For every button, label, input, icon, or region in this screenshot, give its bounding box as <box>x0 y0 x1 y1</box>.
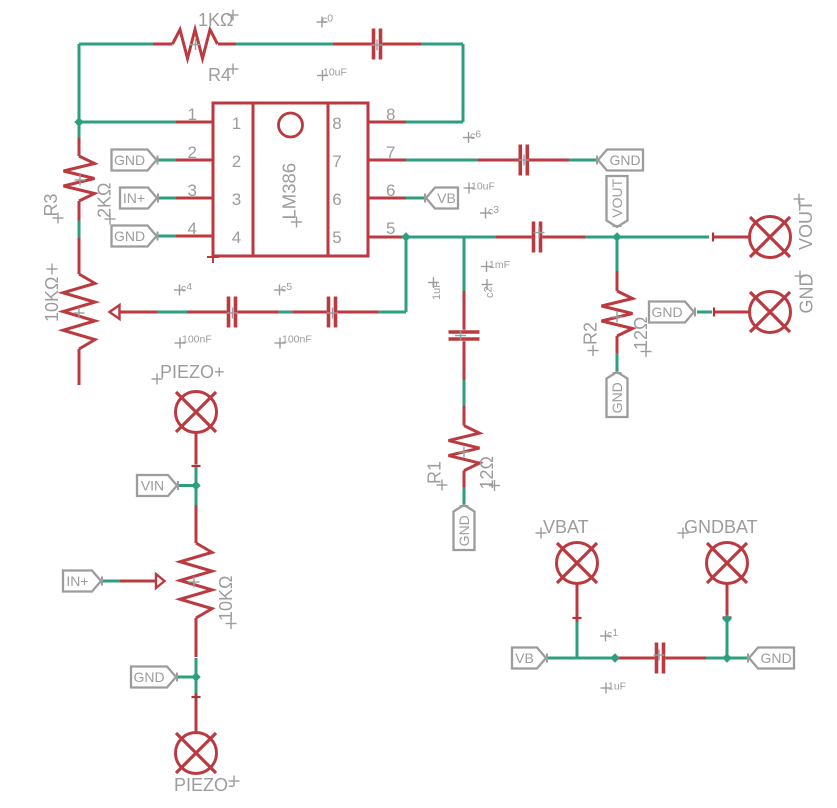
svg-text:GNDBAT: GNDBAT <box>684 517 758 537</box>
svg-text:GND: GND <box>609 152 640 168</box>
svg-text:c2: c2 <box>483 286 497 298</box>
svg-text:c1: c1 <box>607 627 618 641</box>
svg-text:LM386: LM386 <box>279 163 300 220</box>
svg-text:3: 3 <box>188 181 197 200</box>
svg-text:c3: c3 <box>488 204 499 218</box>
svg-text:GND: GND <box>456 515 472 546</box>
svg-text:R2: R2 <box>581 322 601 345</box>
svg-text:VB: VB <box>437 190 456 206</box>
svg-text:1uF: 1uF <box>608 681 626 693</box>
svg-text:PIEZO-: PIEZO- <box>174 775 234 795</box>
svg-text:c6: c6 <box>470 129 481 143</box>
svg-text:c5: c5 <box>281 281 292 295</box>
svg-text:3: 3 <box>232 190 241 209</box>
svg-text:c0: c0 <box>322 13 333 27</box>
svg-text:VOUT: VOUT <box>796 200 816 250</box>
svg-text:7: 7 <box>386 143 395 162</box>
svg-text:IN+: IN+ <box>123 190 145 206</box>
svg-text:1: 1 <box>232 114 241 133</box>
svg-text:8: 8 <box>386 105 395 124</box>
svg-text:GND: GND <box>760 650 791 666</box>
svg-text:7: 7 <box>332 152 341 171</box>
svg-text:GND: GND <box>114 152 145 168</box>
svg-text:R4: R4 <box>208 65 231 85</box>
svg-text:VOUT: VOUT <box>609 178 625 217</box>
svg-text:c4: c4 <box>181 281 192 295</box>
svg-text:10uF: 10uF <box>323 67 347 79</box>
svg-text:10KΩ: 10KΩ <box>42 277 62 322</box>
svg-text:4: 4 <box>232 228 241 247</box>
svg-text:GND: GND <box>609 382 625 413</box>
svg-text:VBAT: VBAT <box>543 517 589 537</box>
svg-text:2KΩ: 2KΩ <box>95 183 115 218</box>
svg-text:5: 5 <box>386 219 395 238</box>
svg-text:5: 5 <box>332 228 341 247</box>
svg-text:GND: GND <box>114 228 145 244</box>
svg-text:1mF: 1mF <box>489 259 510 271</box>
svg-text:4: 4 <box>188 219 197 238</box>
svg-text:6: 6 <box>386 181 395 200</box>
svg-text:GND: GND <box>133 669 164 685</box>
svg-text:6: 6 <box>332 190 341 209</box>
svg-text:100nF: 100nF <box>182 334 212 346</box>
svg-text:2: 2 <box>188 143 197 162</box>
svg-text:VB: VB <box>515 650 534 666</box>
svg-text:VIN: VIN <box>141 478 164 494</box>
svg-text:GND: GND <box>651 304 682 320</box>
svg-text:10KΩ: 10KΩ <box>216 576 236 621</box>
svg-text:100nF: 100nF <box>282 334 312 346</box>
svg-text:8: 8 <box>332 114 341 133</box>
svg-text:1: 1 <box>188 105 197 124</box>
svg-text:IN+: IN+ <box>66 573 88 589</box>
svg-text:10uF: 10uF <box>471 181 495 193</box>
svg-text:1KΩ: 1KΩ <box>198 10 233 30</box>
svg-text:PIEZO+: PIEZO+ <box>160 362 225 382</box>
svg-text:2: 2 <box>232 152 241 171</box>
svg-text:12Ω: 12Ω <box>631 317 651 350</box>
